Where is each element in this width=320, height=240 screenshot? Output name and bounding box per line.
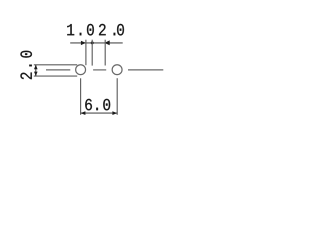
- extension tick 1: [85, 40, 87, 65]
- lead wire right: [128, 69, 163, 71]
- left vertical dimension line: [35, 65, 37, 76]
- extension tick 3: [104, 40, 106, 66]
- junction dot at tick2: [91, 41, 94, 44]
- lead wire middle: [93, 69, 106, 71]
- arrowhead up at left dimension: [34, 65, 38, 69]
- arrowhead right-pointing bottom: [112, 111, 117, 115]
- lead wire left: [46, 69, 70, 71]
- arrowhead left-pointing bottom: [81, 111, 86, 115]
- dimension text 1.0: [67, 24, 94, 36]
- extension tick 2: [91, 40, 93, 66]
- pad hole right: [112, 65, 122, 75]
- left dimension extension line bottom: [34, 75, 77, 77]
- bottom dimension line: [81, 112, 118, 114]
- dimension text 6.0: [85, 99, 110, 111]
- bottom extension line left: [80, 78, 82, 115]
- dimension text 2.0 (left, rotated): [20, 51, 32, 79]
- arrowhead left-pointing at tick3: [104, 40, 109, 45]
- left dimension extension line top: [34, 64, 77, 66]
- dimension text 2.0 (top): [99, 24, 124, 36]
- top dimension line: [70, 42, 123, 44]
- bottom extension line right: [116, 78, 118, 115]
- arrowhead down at left dimension: [34, 72, 38, 76]
- arrowhead right-pointing at tick1: [81, 41, 86, 45]
- pad hole left: [76, 65, 86, 75]
